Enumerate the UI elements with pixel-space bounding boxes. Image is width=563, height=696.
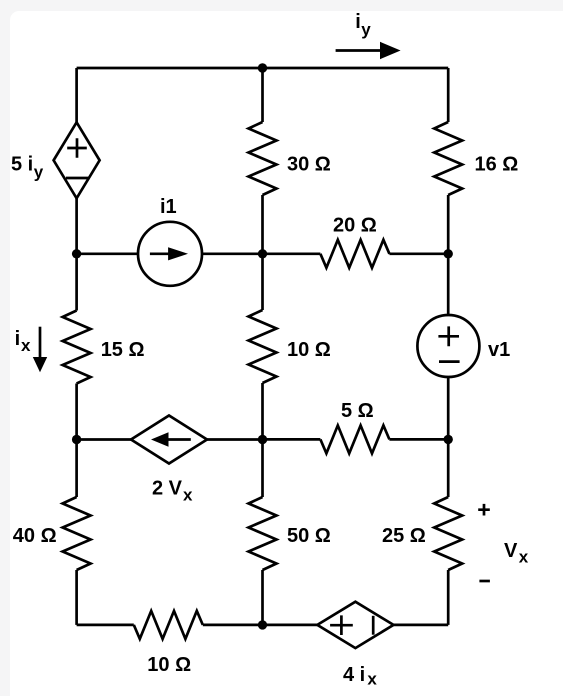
svg-text:4 i: 4 i xyxy=(343,664,365,686)
node dot left row3 xyxy=(72,435,81,444)
wire middle column row3 to 50ohm xyxy=(261,440,264,498)
wire row3 from 2Vx to middle node xyxy=(207,438,263,441)
svg-text:V: V xyxy=(504,540,518,562)
svg-text:v1: v1 xyxy=(488,339,510,361)
resistor R 50ohm xyxy=(249,497,277,570)
wire right column below 25ohm to bottom rail xyxy=(447,570,450,625)
arrow inside 2Vx xyxy=(166,438,191,441)
current source i1 (circle) xyxy=(138,222,202,286)
svg-text:i: i xyxy=(355,11,361,33)
svg-text:40 Ω: 40 Ω xyxy=(13,525,57,547)
wire bottom rail middle node to 4ix xyxy=(263,624,318,627)
svg-text:y: y xyxy=(34,162,44,181)
svg-text:10 Ω: 10 Ω xyxy=(287,339,331,361)
wire left column below 5iy to row2 xyxy=(75,198,78,254)
current arrow ix (left) xyxy=(39,327,42,358)
minus sign inside v1 xyxy=(439,360,460,363)
wire middle column row2 to 10ohm xyxy=(261,254,264,310)
resistor R 15ohm xyxy=(63,311,91,384)
wire middle column top to 30ohm xyxy=(261,68,264,122)
svg-text:i: i xyxy=(15,328,21,350)
wire left column below 40ohm to bottom rail xyxy=(75,570,78,625)
wire right column top to 16ohm xyxy=(447,68,450,122)
svg-text:2 V: 2 V xyxy=(152,478,183,500)
resistor R 20ohm xyxy=(320,240,389,268)
wire row3 from left node to 2Vx xyxy=(77,438,131,441)
resistor R 10ohm vertical xyxy=(249,310,277,383)
wire top rail from left corner to right corner xyxy=(77,67,449,70)
node dot bottom middle xyxy=(258,620,267,629)
node dot middle row3 xyxy=(258,435,267,444)
wire right column below v1 to row3 xyxy=(447,377,450,439)
node dot right row2 xyxy=(444,249,453,258)
wire row2 from left node to i1 xyxy=(77,252,138,255)
dependent source 4ix (diamond) xyxy=(317,602,393,648)
wire left column row3 to 40ohm xyxy=(75,440,78,498)
wire row3 from 5ohm to right node xyxy=(389,438,448,441)
plus sign inside 4ix xyxy=(330,615,353,635)
wire bottom rail left corner to 10ohm xyxy=(77,624,134,627)
svg-text:15 Ω: 15 Ω xyxy=(101,339,145,361)
wire row2 from 20ohm to right node xyxy=(389,252,448,255)
wire bottom rail 4ix to right corner xyxy=(394,624,449,627)
wire left column top segment xyxy=(75,68,78,122)
svg-text:y: y xyxy=(361,20,371,39)
arrowhead ix xyxy=(33,357,47,372)
node dot middle row2 xyxy=(258,249,267,258)
arrowhead i1 xyxy=(168,247,188,260)
plus sign of Vx marking xyxy=(478,504,490,516)
svg-text:30 Ω: 30 Ω xyxy=(287,154,331,176)
arrowhead iy xyxy=(380,42,401,59)
wire right column row3 to 25ohm xyxy=(447,439,450,497)
dependent source 2Vx (diamond) xyxy=(131,416,207,464)
svg-text:10 Ω: 10 Ω xyxy=(147,654,191,676)
svg-text:50 Ω: 50 Ω xyxy=(287,525,331,547)
node dot left row2 xyxy=(72,249,81,258)
resistor R 25ohm xyxy=(434,497,462,570)
voltage source v1 (circle) xyxy=(417,315,479,377)
svg-text:25 Ω: 25 Ω xyxy=(382,525,426,547)
plus sign inside 5iy xyxy=(67,138,87,158)
node dot right row3 xyxy=(444,435,453,444)
svg-text:x: x xyxy=(367,670,377,689)
resistor R 30ohm xyxy=(249,122,277,195)
minus sign inside 5iy xyxy=(66,177,88,180)
dependent source 5iy (diamond) xyxy=(54,122,100,198)
resistor R 5ohm xyxy=(320,425,389,453)
wire row2 from i1 to middle node xyxy=(202,252,263,255)
wire right column below 16ohm to row2 xyxy=(447,195,450,254)
arrowhead 2Vx xyxy=(151,432,169,447)
wire row3 from middle node to 5ohm xyxy=(263,438,321,441)
resistor R 16ohm xyxy=(434,122,462,195)
wire row2 from middle node to 20ohm xyxy=(263,252,321,255)
wire middle column below 10ohm to row3 xyxy=(261,383,264,440)
wire bottom rail 10ohm to middle node xyxy=(203,624,263,627)
resistor R 10ohm horizontal xyxy=(134,611,203,639)
wire left column row2 to 15ohm xyxy=(75,254,78,311)
svg-text:x: x xyxy=(21,336,31,355)
svg-text:x: x xyxy=(519,548,529,567)
svg-text:5 i: 5 i xyxy=(11,153,33,175)
svg-text:5 Ω: 5 Ω xyxy=(341,400,374,422)
wire middle column below 50ohm to bottom rail xyxy=(261,570,264,625)
minus sign of Vx marking xyxy=(479,580,490,583)
plus sign inside v1 xyxy=(438,326,459,346)
arrow inside i1 xyxy=(150,252,172,255)
wire middle column below 30ohm to row2 xyxy=(261,195,264,254)
svg-text:i1: i1 xyxy=(160,196,177,218)
wire right column row2 to v1 xyxy=(447,254,450,315)
node dot top middle xyxy=(258,63,267,72)
svg-text:x: x xyxy=(183,486,193,505)
svg-text:20 Ω: 20 Ω xyxy=(333,215,377,237)
resistor R 40ohm xyxy=(63,497,91,570)
wire left column below 15ohm to row3 xyxy=(75,384,78,440)
svg-text:16 Ω: 16 Ω xyxy=(475,154,519,176)
bar inside 4ix xyxy=(372,616,375,635)
current arrow iy (top) xyxy=(336,49,381,52)
